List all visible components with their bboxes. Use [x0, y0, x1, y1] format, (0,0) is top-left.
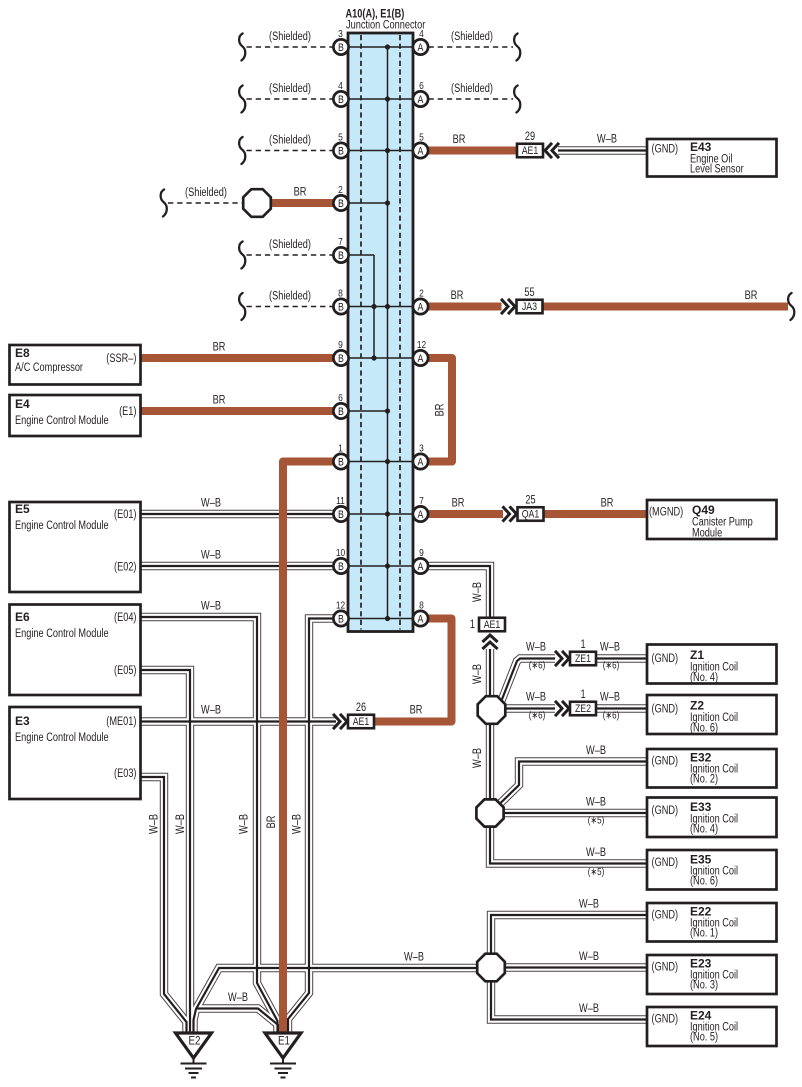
shielded wire to pin B7	[239, 239, 333, 269]
svg-text:Engine Control Module: Engine Control Module	[15, 628, 109, 640]
svg-text:7: 7	[338, 236, 343, 248]
connector ZE2 pin 1	[555, 689, 596, 716]
wire BR JA3 onward	[543, 303, 788, 311]
junction connector internal row wires	[341, 47, 421, 619]
svg-text:Engine Control Module: Engine Control Module	[15, 520, 109, 532]
wire W-B octagon to E33	[504, 812, 649, 814]
svg-text:BR: BR	[294, 187, 307, 199]
svg-text:W–B: W–B	[239, 814, 251, 834]
svg-text:W–B: W–B	[201, 601, 221, 613]
svg-text:29: 29	[525, 131, 535, 143]
wire W-B octagon to ZE1	[502, 659, 556, 701]
connector ZE1 pin 1	[555, 639, 596, 666]
wire BR E4 E1 to B6	[140, 407, 334, 415]
wire W-B octagon to E22	[491, 915, 648, 953]
svg-text:(GND): (GND)	[652, 805, 679, 817]
svg-text:E3: E3	[15, 714, 30, 728]
svg-text:(E03): (E03)	[114, 768, 137, 780]
label *6 ZE1 left	[529, 660, 546, 672]
svg-text:(∗6): (∗6)	[603, 660, 620, 672]
coil E35 Ignition Coil No.6	[647, 850, 777, 890]
svg-text:ZE1: ZE1	[575, 653, 591, 665]
pin B3	[333, 28, 348, 55]
svg-text:W–B: W–B	[526, 642, 546, 654]
label W-B E32 row	[586, 745, 606, 757]
pin A12	[413, 339, 428, 366]
svg-text:9: 9	[419, 547, 424, 559]
pin B2	[333, 184, 348, 211]
wire W-B E6 E04 to ground E1	[140, 617, 278, 1034]
pin B9	[333, 339, 348, 366]
ground E1	[265, 1033, 301, 1078]
label W-B ME01 row	[201, 705, 221, 717]
svg-text:(No. 6): (No. 6)	[690, 876, 718, 888]
label BR AE1-26 row	[410, 705, 423, 717]
label W-B ZE1 right	[600, 642, 620, 654]
wire W-B E6 E05 to ground E2	[140, 670, 190, 1034]
svg-text:1: 1	[338, 443, 343, 455]
label W-B E43 row	[597, 134, 617, 146]
svg-text:(Shielded): (Shielded)	[185, 187, 227, 199]
wire BR B1 to ground E1	[283, 462, 334, 1035]
module E8 A/C Compressor	[10, 345, 141, 385]
module E6 Engine Control Module	[10, 605, 141, 696]
svg-text:E22: E22	[690, 905, 712, 919]
pin B1	[333, 443, 348, 470]
label W-B trunk row	[404, 952, 424, 964]
svg-text:8: 8	[419, 600, 424, 612]
svg-text:BR: BR	[451, 290, 464, 302]
pin B11	[333, 495, 348, 522]
pin A7	[413, 495, 428, 522]
label BR A2 row	[451, 290, 464, 302]
svg-text:W–B: W–B	[526, 692, 546, 704]
svg-text:8: 8	[338, 288, 343, 300]
label W-B vertical AE1-1	[472, 664, 484, 684]
label BR QA1-Q49 row	[601, 498, 614, 510]
connector AE1 pin 1	[470, 618, 505, 649]
svg-text:Level Sensor: Level Sensor	[690, 164, 744, 176]
svg-text:B: B	[338, 145, 344, 157]
svg-text:6: 6	[419, 80, 424, 92]
svg-text:3: 3	[338, 28, 343, 40]
connector QA1 pin 25	[503, 495, 544, 522]
label W-B E24 row	[579, 1003, 599, 1015]
label BR A12-A3 loop	[435, 404, 447, 417]
svg-text:QA1: QA1	[522, 509, 540, 521]
svg-text:BR: BR	[266, 816, 278, 829]
svg-text:JA3: JA3	[522, 301, 537, 313]
shielded wire to pin B8	[239, 291, 333, 321]
svg-text:B: B	[338, 456, 344, 468]
svg-text:BR: BR	[213, 342, 226, 354]
svg-text:(E02): (E02)	[114, 562, 137, 574]
label W-B branch row	[228, 992, 248, 1004]
svg-text:(GND): (GND)	[652, 1014, 679, 1026]
svg-text:E8: E8	[15, 346, 30, 360]
svg-text:5: 5	[419, 132, 424, 144]
svg-text:E5: E5	[15, 502, 30, 516]
svg-text:W–B: W–B	[228, 992, 248, 1004]
pin B8	[333, 288, 348, 315]
svg-text:(E01): (E01)	[114, 509, 137, 521]
wire W-B trunk to ground E2	[194, 968, 478, 1034]
svg-text:(ME01): (ME01)	[106, 716, 136, 728]
svg-text:(E04): (E04)	[114, 612, 137, 624]
label *6 ZE2 left	[529, 710, 546, 722]
svg-text:9: 9	[338, 339, 343, 351]
shield octagon junction	[243, 189, 271, 217]
svg-text:(No. 6): (No. 6)	[690, 723, 718, 735]
svg-text:(No. 3): (No. 3)	[690, 980, 718, 992]
svg-text:E43: E43	[690, 140, 712, 154]
pin A9	[413, 547, 428, 574]
wire W-B octagon to E23	[505, 966, 649, 968]
module E3 Engine Control Module	[10, 707, 141, 799]
label *6 ZE2 right	[603, 710, 620, 722]
svg-text:BR: BR	[745, 290, 758, 302]
connector JA3 pin 55	[501, 287, 543, 314]
label W-B E35 row	[586, 847, 606, 859]
junction connector A10(A) E1(B) body	[348, 33, 413, 632]
svg-text:W–B: W–B	[579, 951, 599, 963]
label W-B E23 row	[579, 951, 599, 963]
svg-text:(Shielded): (Shielded)	[269, 31, 311, 43]
sensor E43 Engine Oil Level Sensor	[647, 139, 777, 177]
svg-text:E6: E6	[15, 610, 30, 624]
svg-text:B: B	[338, 613, 344, 625]
svg-text:Engine Control Module: Engine Control Module	[15, 415, 109, 427]
svg-text:(No. 4): (No. 4)	[690, 824, 718, 836]
svg-text:B: B	[338, 509, 344, 521]
svg-text:W–B: W–B	[472, 664, 484, 684]
pin B10	[333, 547, 348, 574]
wire BR A5 to AE1-29	[429, 147, 518, 155]
svg-text:A: A	[418, 353, 424, 365]
wire W-B ZE1 to Z1	[597, 657, 648, 659]
label W-B vertical E03	[149, 814, 161, 834]
svg-text:(SSR–): (SSR–)	[106, 353, 136, 365]
svg-text:W–B: W–B	[579, 1003, 599, 1015]
svg-text:11: 11	[336, 495, 345, 507]
svg-text:(GND): (GND)	[652, 962, 679, 974]
label W-B ZE1 left	[526, 642, 546, 654]
label BR E8 row	[213, 342, 226, 354]
svg-text:W–B: W–B	[586, 745, 606, 757]
wire W-B E3 ME01 to AE1-26	[140, 720, 336, 722]
svg-text:4: 4	[338, 80, 343, 92]
wire W-B octagon to E24	[491, 981, 648, 1020]
svg-text:BR: BR	[453, 134, 466, 146]
label BR vertical to E1	[266, 816, 278, 829]
svg-text:(GND): (GND)	[652, 704, 679, 716]
svg-text:55: 55	[524, 287, 534, 299]
wire W-B E3 E03 to ground E2	[140, 777, 187, 1034]
svg-text:A: A	[418, 94, 424, 106]
svg-text:W–B: W–B	[586, 847, 606, 859]
svg-text:A: A	[418, 456, 424, 468]
svg-text:A: A	[418, 509, 424, 521]
connector AE1 pin 29	[517, 131, 559, 158]
svg-text:(∗5): (∗5)	[588, 815, 605, 827]
svg-text:A: A	[418, 301, 424, 313]
W-B wires group	[140, 151, 648, 1035]
svg-text:A: A	[418, 145, 424, 157]
pin A5	[413, 132, 428, 159]
svg-text:(No. 4): (No. 4)	[690, 672, 718, 684]
svg-text:(No. 2): (No. 2)	[690, 774, 718, 786]
label W-B vertical E04	[239, 814, 251, 834]
svg-text:E33: E33	[690, 800, 712, 814]
svg-text:E35: E35	[690, 853, 712, 867]
wire BR A7 to QA1	[429, 510, 504, 518]
wire W-B octagon to E35	[490, 827, 648, 864]
wire W-B branch to ground E1	[196, 1009, 280, 1035]
svg-text:W–B: W–B	[586, 797, 606, 809]
shielded wire to pin B3	[239, 31, 333, 61]
label W-B E22 row	[579, 899, 599, 911]
svg-text:AE1: AE1	[484, 619, 501, 631]
svg-text:2: 2	[338, 184, 343, 196]
svg-text:(E05): (E05)	[114, 665, 137, 677]
label W-B vertical octagons	[472, 748, 484, 768]
coil Z2 Ignition Coil No.6	[647, 695, 777, 735]
connector AE1 pin 26	[333, 702, 374, 729]
octagon junction node 3	[477, 954, 505, 982]
label W-B vertical B12	[292, 814, 304, 834]
svg-text:(GND): (GND)	[652, 653, 679, 665]
svg-text:BR: BR	[213, 395, 226, 407]
label BR A7 row	[452, 498, 465, 510]
label W-B ZE2 right	[600, 692, 620, 704]
coil E33 Ignition Coil No.4	[647, 798, 777, 838]
octagon junction node 1	[478, 696, 506, 724]
svg-text:E1: E1	[278, 1036, 290, 1048]
svg-text:W–B: W–B	[201, 498, 221, 510]
svg-text:B: B	[338, 198, 344, 210]
svg-text:(∗5): (∗5)	[588, 866, 605, 878]
svg-text:W–B: W–B	[175, 814, 187, 834]
shielded wire from pin A4	[429, 31, 521, 61]
svg-text:(Shielded): (Shielded)	[269, 83, 311, 95]
svg-text:E24: E24	[690, 1009, 712, 1023]
wire W-B octagon to E32	[500, 762, 649, 805]
pin B4	[333, 80, 348, 107]
label W-B E04 row	[201, 601, 221, 613]
svg-text:(GND): (GND)	[652, 144, 679, 156]
svg-text:W–B: W–B	[600, 692, 620, 704]
svg-text:(Shielded): (Shielded)	[269, 135, 311, 147]
junction connector title	[346, 9, 426, 32]
svg-text:E2: E2	[189, 1036, 201, 1048]
pin B5	[333, 132, 348, 159]
svg-text:B: B	[338, 561, 344, 573]
svg-text:W–B: W–B	[149, 814, 161, 834]
label *5 E33 row	[588, 815, 605, 827]
wire BR A12 to A3 loop	[429, 358, 453, 462]
label *6 ZE1 right	[603, 660, 620, 672]
wire W-B E5 E02 to B10	[140, 565, 334, 567]
svg-text:(No. 5): (No. 5)	[690, 1032, 718, 1044]
svg-text:A: A	[418, 613, 424, 625]
pin A2	[413, 288, 428, 315]
svg-text:B: B	[338, 250, 344, 262]
coil Z1 Ignition Coil No.4	[647, 645, 777, 685]
svg-text:Q49: Q49	[692, 503, 715, 517]
shielded wire from pin A6	[429, 83, 521, 113]
label BR A5 row	[453, 134, 466, 146]
wire BR A2 to JA3	[429, 303, 502, 311]
coil E24 Ignition Coil No.5	[647, 1007, 777, 1046]
module E4 Engine Control Module	[10, 395, 141, 436]
svg-text:(Shielded): (Shielded)	[269, 291, 311, 303]
svg-text:(GND): (GND)	[652, 756, 679, 768]
label BR E4 row	[213, 395, 226, 407]
label BR shield row	[294, 187, 307, 199]
svg-text:ZE2: ZE2	[575, 703, 591, 715]
wire W-B octagon to octagon	[489, 724, 491, 801]
wire W-B octagon to ZE2	[506, 707, 556, 709]
coil E32 Ignition Coil No.2	[647, 749, 777, 788]
octagon junction node 2	[476, 799, 503, 826]
svg-text:Z1: Z1	[690, 648, 704, 662]
svg-text:(MGND): (MGND)	[649, 507, 683, 519]
svg-text:7: 7	[419, 495, 424, 507]
svg-text:(Shielded): (Shielded)	[269, 239, 311, 251]
label W-B ZE2 left	[526, 692, 546, 704]
wire W-B E5 E01 to B11	[140, 513, 334, 515]
svg-text:W–B: W–B	[579, 899, 599, 911]
junction connector internal bus wire	[374, 47, 388, 619]
wire W-B AE1-1 to octagon	[489, 649, 491, 697]
svg-text:Module: Module	[692, 528, 722, 540]
pin B12	[333, 600, 348, 627]
wire W-B ZE2 to Z2	[597, 707, 648, 709]
svg-text:10: 10	[336, 547, 345, 559]
svg-text:B: B	[338, 42, 344, 54]
shielded wire to pin B4	[239, 83, 333, 113]
coil E23 Ignition Coil No.3	[647, 955, 777, 994]
svg-text:(GND): (GND)	[652, 910, 679, 922]
svg-text:A: A	[418, 561, 424, 573]
svg-text:B: B	[338, 94, 344, 106]
wire BR QA1 to Q49	[543, 510, 650, 518]
svg-text:W–B: W–B	[201, 550, 221, 562]
label W-B vertical E05	[175, 814, 187, 834]
svg-text:W–B: W–B	[404, 952, 424, 964]
svg-text:A/C Compressor: A/C Compressor	[15, 362, 83, 374]
svg-text:W–B: W–B	[472, 748, 484, 768]
pin B6	[333, 392, 348, 419]
junction connector bus junction dots	[371, 44, 390, 621]
svg-text:Junction Connector: Junction Connector	[346, 20, 425, 32]
svg-text:(∗6): (∗6)	[529, 660, 546, 672]
pin A8	[413, 600, 428, 627]
svg-text:(Shielded): (Shielded)	[451, 83, 493, 95]
shielded wire to pin B5	[239, 135, 333, 165]
module Q49 Canister Pump Module	[647, 500, 777, 540]
pin A4	[413, 28, 428, 55]
wire BR continuation squiggle right edge	[788, 293, 794, 320]
pin A6	[413, 80, 428, 107]
svg-text:26: 26	[356, 702, 366, 714]
svg-text:B: B	[338, 406, 344, 418]
svg-text:1: 1	[580, 639, 585, 651]
pin A3	[413, 443, 428, 470]
svg-text:AE1: AE1	[522, 145, 539, 157]
svg-text:(GND): (GND)	[652, 857, 679, 869]
label BR JA3 onward	[745, 290, 758, 302]
wire BR shield octagon to B2	[270, 199, 334, 207]
svg-text:E4: E4	[15, 397, 30, 411]
svg-text:(∗6): (∗6)	[529, 710, 546, 722]
svg-text:25: 25	[525, 495, 535, 507]
svg-text:6: 6	[338, 392, 343, 404]
svg-text:1: 1	[470, 619, 475, 631]
coil E22 Ignition Coil No.1	[647, 903, 777, 942]
svg-text:(E1): (E1)	[119, 406, 137, 418]
BR wires group	[140, 151, 788, 1035]
svg-text:12: 12	[417, 339, 426, 351]
wire W-B B12 to ground E1	[288, 619, 334, 1035]
svg-text:(No. 1): (No. 1)	[690, 928, 718, 940]
wire BR A8 to AE1-26	[374, 619, 452, 722]
svg-text:(∗6): (∗6)	[603, 710, 620, 722]
svg-text:B: B	[338, 301, 344, 313]
shielded wire to shield octagon	[161, 187, 243, 217]
svg-text:12: 12	[336, 600, 345, 612]
label W-B vertical A9	[472, 582, 484, 602]
module E5 Engine Control Module	[10, 502, 141, 592]
svg-text:BR: BR	[410, 705, 423, 717]
wire BR E8 SSR- to B9	[140, 354, 334, 362]
svg-text:2: 2	[419, 288, 424, 300]
svg-text:AE1: AE1	[353, 716, 370, 728]
svg-text:A: A	[418, 42, 424, 54]
svg-text:B: B	[338, 353, 344, 365]
wire W-B AE1-29 to E43	[558, 149, 648, 151]
svg-text:W–B: W–B	[472, 582, 484, 602]
svg-text:Engine Control Module: Engine Control Module	[15, 732, 109, 744]
svg-text:E32: E32	[690, 751, 712, 765]
svg-text:BR: BR	[601, 498, 614, 510]
svg-text:1: 1	[580, 689, 585, 701]
svg-text:5: 5	[338, 132, 343, 144]
svg-text:BR: BR	[452, 498, 465, 510]
svg-text:W–B: W–B	[597, 134, 617, 146]
label W-B E02 row	[201, 550, 221, 562]
svg-text:4: 4	[419, 28, 424, 40]
svg-text:Z2: Z2	[690, 699, 704, 713]
svg-text:A10(A), E1(B): A10(A), E1(B)	[346, 9, 405, 21]
svg-text:3: 3	[419, 443, 424, 455]
svg-text:W–B: W–B	[201, 705, 221, 717]
label W-B E33 row	[586, 797, 606, 809]
label *5 E35 row	[588, 866, 605, 878]
pin B7	[333, 236, 348, 263]
wire W-B A9 to AE1-1	[429, 566, 491, 618]
svg-text:W–B: W–B	[292, 814, 304, 834]
svg-text:BR: BR	[435, 404, 447, 417]
svg-text:E23: E23	[690, 957, 712, 971]
svg-text:(Shielded): (Shielded)	[451, 31, 493, 43]
ground E2	[176, 1033, 212, 1078]
svg-text:W–B: W–B	[600, 642, 620, 654]
label W-B E01 row	[201, 498, 221, 510]
